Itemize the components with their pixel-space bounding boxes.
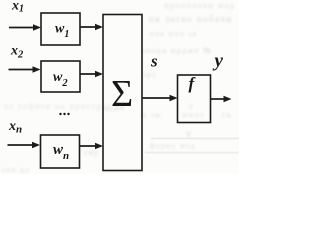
bleed-through bottom left corner xyxy=(2,166,30,174)
bleed-through under Sigma xyxy=(105,105,125,113)
arrow w1 to sigma xyxy=(80,24,103,30)
bleed-through text left of f xyxy=(142,70,157,79)
bleed-through Y mark under f xyxy=(186,130,193,139)
bleed-through row across left xyxy=(4,102,126,111)
arrow wn to sigma xyxy=(80,143,103,149)
ellipsis dots xyxy=(59,113,61,115)
bleed-through text top right line 2 xyxy=(149,14,233,24)
weight box w2 xyxy=(41,61,80,92)
arrow sigma to f xyxy=(142,95,178,101)
svg-text:s: s xyxy=(150,52,158,71)
svg-text:xn: xn xyxy=(8,119,22,136)
bleed-through text right line 3 xyxy=(150,30,198,38)
bleed-through inside f box xyxy=(189,103,194,111)
bleed-through text right line 4 xyxy=(141,46,212,55)
arrow w2 to sigma xyxy=(80,71,103,77)
svg-text:wn: wn xyxy=(53,142,69,162)
weight box w1 xyxy=(41,13,80,45)
svg-text:y: y xyxy=(213,51,224,72)
bleed-through right of wn box xyxy=(84,148,100,157)
bleed-through lower right text xyxy=(150,142,196,150)
weight box wn xyxy=(41,135,80,168)
bleed-through left of f box lower xyxy=(141,111,161,119)
arrow x2 to w2 xyxy=(9,66,41,72)
bleed-through right of f box xyxy=(222,110,232,119)
arrow xn to wn xyxy=(8,142,41,148)
activation box f xyxy=(178,75,211,123)
svg-text:x2: x2 xyxy=(10,44,24,61)
arrow f to output y xyxy=(211,96,232,102)
bleed-through faint rule under f xyxy=(151,138,239,139)
arrow x1 to w1 xyxy=(9,24,41,30)
svg-text:w2: w2 xyxy=(53,70,68,89)
bleed-through faint rule bottom right xyxy=(145,152,239,153)
svg-text:f: f xyxy=(189,74,197,93)
svg-text:x1: x1 xyxy=(11,0,24,15)
svg-text:Σ: Σ xyxy=(111,73,133,115)
svg-text:w1: w1 xyxy=(55,22,69,41)
summation block sigma xyxy=(103,15,142,171)
bleed-through text top right line 1 xyxy=(164,1,235,10)
